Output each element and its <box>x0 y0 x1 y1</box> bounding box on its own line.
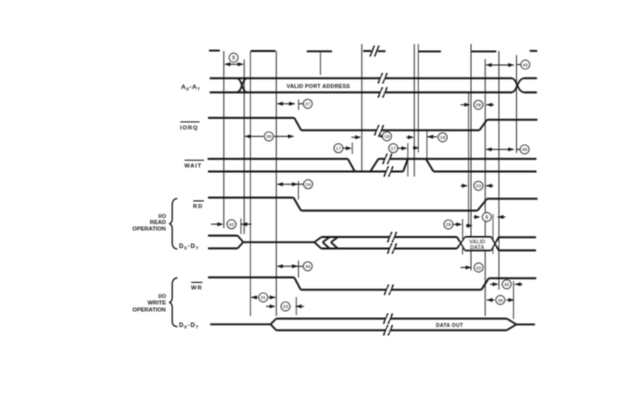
svg-text:42: 42 <box>504 282 510 287</box>
svg-text:25: 25 <box>446 222 452 227</box>
reference line x=244.2 <box>243 60 245 235</box>
svg-text:42: 42 <box>229 222 235 227</box>
brace for I/O write group <box>169 278 177 327</box>
svg-text:43: 43 <box>523 62 529 67</box>
measurement 42 (right, WR) <box>490 280 523 289</box>
measurement 42 (left, D0-D7 read) <box>211 220 252 229</box>
reference line x=223.8 <box>223 51 225 228</box>
label WR (overline) <box>191 282 203 291</box>
signal WAIT (high and low paths) <box>208 154 537 177</box>
signal D0-D7 (read) <box>208 232 536 254</box>
measurement 8 <box>224 53 243 66</box>
svg-text:35: 35 <box>498 298 504 303</box>
svg-text:28: 28 <box>476 103 482 108</box>
svg-text:I/O: I/O <box>158 294 166 300</box>
svg-text:17: 17 <box>336 146 342 151</box>
svg-text:DATA OUT: DATA OUT <box>436 323 463 329</box>
reference line x=250.4 <box>249 51 251 316</box>
reference line x=361.8 <box>361 44 363 172</box>
label I/O READ OPERATION <box>132 214 166 232</box>
reference line x=298.4 <box>297 181 299 200</box>
reference line x=493.0 <box>492 214 494 254</box>
svg-text:OPERATION: OPERATION <box>132 307 165 313</box>
reference line x=516.5 <box>516 55 518 153</box>
svg-text:23: 23 <box>476 184 482 189</box>
measurement 24 <box>277 180 313 189</box>
svg-text:24: 24 <box>305 182 311 187</box>
svg-text:34: 34 <box>305 264 311 269</box>
reference line x=485.2 <box>484 59 486 316</box>
reference line x=498.9 <box>498 51 500 290</box>
svg-text:WR: WR <box>191 286 203 292</box>
svg-text:DATA: DATA <box>470 245 484 251</box>
signal WR <box>208 277 536 295</box>
svg-text:18: 18 <box>440 135 446 140</box>
svg-text:IORQ: IORQ <box>180 125 198 131</box>
measurement 33 <box>266 302 304 311</box>
svg-text:OPERATION: OPERATION <box>132 226 165 232</box>
svg-text:READ: READ <box>150 220 166 226</box>
measurement 43 (top right) <box>486 60 530 69</box>
reference line x=320.4 <box>319 51 321 75</box>
svg-text:VALID PORT ADDRESS: VALID PORT ADDRESS <box>287 84 351 90</box>
measurement 31 <box>251 293 276 302</box>
label IORQ (overline) <box>180 122 200 131</box>
measurement 17 (second) <box>389 144 408 153</box>
reference line x=352.3 <box>351 143 353 155</box>
label I/O WRITE OPERATION <box>132 294 166 313</box>
measurement 28 <box>461 100 495 109</box>
measurement 35 <box>487 296 515 305</box>
svg-text:27: 27 <box>305 102 311 107</box>
signal IORQ <box>208 118 537 136</box>
svg-text:45: 45 <box>522 147 528 152</box>
reference line x=426.9 <box>426 130 428 161</box>
svg-text:6: 6 <box>485 215 488 221</box>
svg-text:WAIT: WAIT <box>184 164 202 170</box>
svg-text:17: 17 <box>391 146 397 151</box>
clock waveform (top, partially cropped) <box>209 46 537 57</box>
reference line x=298.5 <box>298 261 300 278</box>
measurement 34 <box>277 262 312 271</box>
label WAIT (overline) <box>184 160 204 169</box>
reference line x=296.3 <box>295 297 297 315</box>
svg-text:8: 8 <box>232 55 235 61</box>
reference line x=407.8 <box>407 143 409 177</box>
measurement 17 (first) <box>334 144 352 153</box>
brace for I/O read group <box>169 198 177 249</box>
reference line x=462.6 <box>462 219 464 255</box>
signal RD <box>208 198 538 211</box>
svg-text:32: 32 <box>476 265 482 270</box>
reference line x=298.6 <box>298 100 300 111</box>
signal D0-D7 (write) DATA OUT bus <box>210 313 535 335</box>
measurement 6 <box>466 213 506 228</box>
svg-text:RD: RD <box>193 204 203 210</box>
reference line x=276.3 <box>275 51 277 316</box>
signal A0-A7 address bus <box>210 73 537 98</box>
reference line x=418.3 <box>417 44 419 153</box>
measurement 23 <box>461 181 494 190</box>
reference line x=414.3 <box>413 44 415 177</box>
svg-text:33: 33 <box>283 304 289 309</box>
reference line x=468.6 <box>468 92 470 228</box>
measurement 18 (second) <box>406 133 447 150</box>
measurement 32 <box>461 263 484 272</box>
measurement 18 (first) <box>351 132 391 141</box>
svg-text:31: 31 <box>261 295 267 300</box>
measurement 25 <box>444 220 462 229</box>
svg-text:18: 18 <box>384 134 390 139</box>
reference line x=513.5 <box>513 281 515 319</box>
label RD (overline) <box>193 201 204 210</box>
svg-text:26: 26 <box>266 134 272 139</box>
measurement 27 <box>277 99 312 108</box>
reference line x=471.0 <box>470 44 472 271</box>
svg-text:WRITE: WRITE <box>148 301 167 307</box>
reference line x=240.9 <box>240 219 242 235</box>
measurement 45 (WAIT row right) <box>486 145 529 154</box>
measurement 26 <box>245 132 294 141</box>
